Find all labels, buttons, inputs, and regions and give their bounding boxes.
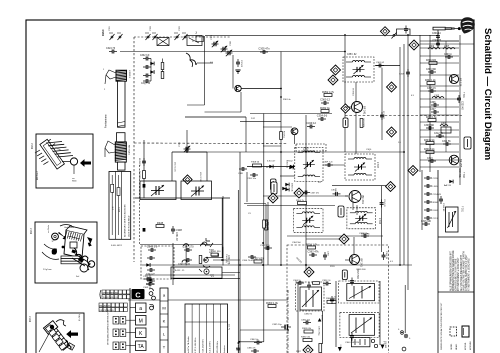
IF transformer Z305 bbox=[293, 208, 323, 232]
coil L307 bbox=[443, 48, 455, 50]
wire hop bbox=[202, 242, 207, 245]
inset B prism body bbox=[64, 226, 87, 258]
node bus f bbox=[305, 264, 307, 266]
band table col2 comp bbox=[117, 188, 120, 196]
output coupling box bbox=[351, 338, 370, 347]
inset B ring 3 bbox=[80, 264, 88, 272]
wire osc vert x207 bbox=[206, 152, 208, 181]
wire x404 vertical bbox=[403, 44, 405, 265]
inset A link wire bbox=[62, 161, 70, 163]
svg-text:e·e: e·e bbox=[211, 276, 215, 278]
wire x408 vertical bbox=[407, 35, 409, 290]
capacitor C347 270 bbox=[182, 244, 194, 252]
wire x240 vertical bbox=[239, 152, 241, 330]
pushbutton small circle b bbox=[152, 296, 156, 300]
gang line mark 1 bbox=[143, 184, 146, 188]
node bus k bbox=[399, 264, 401, 266]
inset B scribble bbox=[74, 248, 90, 270]
svg-text:R310 1.7k: R310 1.7k bbox=[306, 242, 319, 246]
svg-text:C380 10n: C380 10n bbox=[250, 339, 259, 341]
svg-text:R328: R328 bbox=[157, 221, 164, 225]
wire shield dash y143 bbox=[134, 142, 288, 145]
wire x222 vertical bbox=[221, 198, 223, 258]
wire x238b vertical bbox=[237, 190, 239, 353]
svg-text:Z350: Z350 bbox=[303, 149, 309, 151]
wire y244 line bbox=[140, 244, 222, 246]
capacitor C360 470 bbox=[323, 252, 327, 260]
oscillator gang box right bbox=[181, 181, 212, 200]
inset box tuner mechanism bbox=[36, 134, 93, 188]
svg-text:C36P 2.2n: C36P 2.2n bbox=[323, 162, 334, 164]
resistor R307 630 bbox=[252, 256, 264, 263]
capacitor C310 22 bbox=[146, 277, 154, 281]
wire ladder rung y91 bbox=[420, 90, 459, 92]
resistor R307v bbox=[161, 72, 164, 79]
capacitor C305 47n bbox=[258, 46, 270, 54]
pushbutton key K bbox=[136, 328, 147, 338]
svg-text:L305: L305 bbox=[433, 186, 439, 188]
resistor R302 1.2k bbox=[427, 82, 435, 85]
switch contact 4 bbox=[152, 33, 158, 40]
wire rail x336 bbox=[335, 281, 337, 347]
diode D307 bbox=[282, 187, 286, 191]
svg-text:MODULE: MODULE bbox=[470, 340, 472, 350]
Z364 arrow bbox=[351, 318, 372, 334]
svg-text:C345 3.9: C345 3.9 bbox=[147, 244, 158, 248]
resistor on x281 bbox=[280, 132, 283, 140]
ferrite rod body upper bbox=[118, 81, 126, 127]
capacitor C304 top bbox=[404, 26, 408, 34]
wire x382 vertical bbox=[381, 68, 383, 140]
wire y239 line bbox=[306, 238, 342, 240]
svg-text:C364 5k6: C364 5k6 bbox=[292, 242, 301, 244]
capacitor C303 14 bbox=[445, 55, 453, 59]
diode stage T300 bbox=[235, 85, 241, 91]
pushbutton bus bbox=[129, 288, 131, 353]
svg-text:M: M bbox=[162, 306, 165, 311]
svg-text:C322: C322 bbox=[150, 25, 152, 31]
svg-text:C365: C365 bbox=[333, 296, 335, 302]
wire ladder rung y137 bbox=[420, 136, 459, 138]
wire key link a bbox=[130, 307, 136, 309]
svg-text:C302 (H): C302 (H) bbox=[286, 160, 288, 168]
svg-text:C388 98n: C388 98n bbox=[359, 233, 369, 235]
svg-text:TA: TA bbox=[138, 344, 145, 350]
capacitor C312 36 bbox=[436, 134, 444, 138]
capacitor C302 33 bbox=[436, 40, 440, 48]
wire x247 vertical bbox=[246, 172, 248, 202]
capacitor C36 70k bbox=[333, 192, 341, 196]
wire ladder rung y86 bbox=[420, 85, 459, 87]
wire ladder rail x400 bbox=[399, 47, 401, 265]
svg-text:462.2: 462.2 bbox=[32, 143, 34, 149]
test point TP3 bbox=[328, 75, 338, 85]
capacitor C305 15 bbox=[428, 89, 436, 93]
capacitor C357 270 bbox=[264, 246, 272, 250]
svg-text:M 13: M 13 bbox=[119, 207, 121, 212]
svg-text:(CHASSIS) BEI 6,3V BATTERIE: (CHASSIS) BEI 6,3V BATTERIE bbox=[455, 258, 458, 291]
wire T303 base bbox=[345, 106, 351, 108]
wire y275 line bbox=[145, 274, 235, 276]
svg-text:R353 47k: R353 47k bbox=[364, 118, 366, 127]
inset box pointer drive bbox=[36, 313, 84, 353]
band table col2 line bbox=[118, 175, 120, 235]
component ceramic filter block bbox=[464, 137, 471, 149]
svg-text:FM-UKW 87,5: FM-UKW 87,5 bbox=[100, 305, 112, 307]
svg-text:1.9: 1.9 bbox=[398, 142, 402, 144]
svg-text:C302 43: C302 43 bbox=[384, 110, 386, 119]
svg-text:K: K bbox=[163, 319, 166, 324]
wire y127 line bbox=[263, 126, 292, 128]
wire ladder rung y130 bbox=[420, 129, 459, 131]
pushbutton cable hook bbox=[149, 289, 154, 291]
wire x354 t304 bbox=[352, 201, 354, 210]
svg-text:C341 (H): C341 (H) bbox=[225, 254, 227, 263]
svg-text:C314 43: C314 43 bbox=[433, 194, 442, 196]
resistor R308 56 bbox=[253, 164, 262, 167]
svg-text:L303: L303 bbox=[434, 96, 440, 98]
svg-text:R383 63k: R383 63k bbox=[302, 328, 312, 330]
svg-text:X: X bbox=[192, 39, 194, 43]
connector pin 1 ring bbox=[400, 331, 404, 335]
IF transformer Z301 bbox=[343, 57, 374, 82]
test point oscillator bbox=[183, 175, 192, 184]
diode D303 bbox=[290, 165, 294, 169]
svg-text:MODUL: MODUL bbox=[465, 342, 467, 350]
relay box on bus bbox=[397, 29, 411, 35]
resistor R364 bbox=[313, 282, 320, 285]
wire y300 line bbox=[128, 299, 288, 301]
capacitor C330 88 bbox=[142, 158, 146, 166]
svg-text:R304 2.2k: R304 2.2k bbox=[424, 140, 435, 142]
wire caps bus bbox=[150, 59, 152, 82]
wire ladder rung y152 bbox=[420, 151, 459, 153]
capacitor C361 15 bbox=[382, 252, 386, 260]
node bus b bbox=[305, 151, 307, 153]
svg-text:C314 43: C314 43 bbox=[383, 199, 385, 207]
svg-text:C323: C323 bbox=[179, 25, 181, 31]
wire ladder rung y63 bbox=[420, 62, 459, 64]
switch contact 6 bbox=[182, 33, 188, 40]
wire left rail x298 bbox=[297, 282, 299, 353]
test point on bus bbox=[380, 27, 389, 36]
wire x173 vertical bbox=[172, 243, 174, 285]
AF transformer dashed border B bbox=[339, 281, 379, 303]
svg-text:C3Q6: C3Q6 bbox=[366, 149, 372, 151]
svg-text:2W 903: 2W 903 bbox=[386, 340, 388, 348]
inset A pin wires bbox=[46, 142, 73, 158]
wire ladder rung y56 bbox=[420, 55, 459, 57]
capacitor C356 bbox=[248, 255, 256, 259]
wire y152 main bbox=[187, 151, 405, 153]
capacitor C306 bbox=[143, 65, 151, 69]
arrow down b bbox=[381, 345, 385, 349]
svg-text:C3 500: C3 500 bbox=[240, 60, 242, 68]
coil L302 bbox=[428, 48, 440, 50]
svg-text:zur Skala: zur Skala bbox=[47, 224, 50, 233]
switch contact 2 bbox=[117, 33, 123, 40]
svg-text:R3: R3 bbox=[318, 182, 321, 184]
svg-text:L307: L307 bbox=[444, 46, 450, 48]
svg-text:R362 1k: R362 1k bbox=[320, 106, 330, 110]
resistor R362 1k bbox=[320, 106, 330, 113]
svg-text:C305 47n: C305 47n bbox=[258, 46, 270, 50]
pushbutton key a bbox=[136, 303, 147, 313]
svg-text:C305 15: C305 15 bbox=[427, 88, 436, 90]
resistor R328 bbox=[156, 221, 164, 228]
filter Z350 bbox=[296, 144, 326, 151]
svg-text:660 (H): 660 (H) bbox=[295, 257, 302, 264]
wire y51 feed bbox=[266, 51, 345, 53]
band switch table bbox=[109, 172, 131, 240]
switch contact 3 bbox=[145, 33, 151, 40]
wire x233 vertical bbox=[232, 55, 234, 89]
pushbutton key M bbox=[136, 316, 147, 326]
band table col1 line bbox=[111, 175, 113, 235]
inset B hatching bbox=[65, 231, 82, 242]
component Z313 block bbox=[342, 270, 347, 280]
legend solid inner tick bbox=[463, 328, 465, 335]
svg-text:C353 ·62: C353 ·62 bbox=[347, 54, 357, 56]
wire X1 b bbox=[157, 38, 169, 46]
wire y117 line bbox=[185, 116, 246, 118]
svg-text:C367 47n: C367 47n bbox=[311, 193, 320, 195]
oscillator coil box Z361 bbox=[300, 287, 322, 310]
svg-text:462.3: 462.3 bbox=[31, 228, 33, 234]
svg-text:Ferritantenne: Ferritantenne bbox=[105, 114, 108, 128]
svg-text:R305 56k: R305 56k bbox=[458, 168, 460, 179]
svg-text:C303 ¼: C303 ¼ bbox=[444, 53, 452, 56]
wire y236 line bbox=[287, 235, 383, 237]
oscillator gang box left bbox=[140, 181, 176, 200]
svg-text:L3083/1: L3083/1 bbox=[128, 70, 130, 79]
inset B arrow 1 bbox=[58, 232, 66, 240]
wire hop b bbox=[182, 260, 187, 263]
IF transformer Z304 bbox=[347, 208, 376, 229]
svg-text:MIT INSTRUMENT ⌀ 600Ω/VOLT: MIT INSTRUMENT ⌀ 600Ω/VOLT bbox=[457, 257, 460, 291]
filter box X2 bbox=[187, 36, 202, 46]
wire osc vert x172 bbox=[171, 152, 173, 181]
switch contact on bus bbox=[392, 33, 397, 39]
wire x268 vertical bbox=[267, 202, 269, 265]
wire caps join2 bbox=[162, 70, 164, 72]
capacitor C344 27 bbox=[147, 268, 155, 272]
ferrite rod body lower bbox=[117, 133, 126, 142]
wire x281 vertical bbox=[280, 52, 282, 266]
svg-text:3x: 3x bbox=[70, 233, 72, 235]
tape socket contacts bbox=[199, 269, 214, 275]
inset C diagonal bbox=[39, 330, 51, 352]
svg-text:C3Q7 33: C3Q7 33 bbox=[141, 83, 151, 85]
node bus a bbox=[280, 151, 282, 153]
wire tape socket lead bbox=[222, 272, 240, 274]
wire gang link vertical bbox=[133, 37, 135, 262]
svg-text:Welle: Welle bbox=[72, 181, 77, 183]
trimmer C328 bbox=[221, 46, 228, 52]
svg-text:56: 56 bbox=[266, 167, 269, 169]
svg-text:RM 75A/1: RM 75A/1 bbox=[128, 145, 131, 156]
ferrite rod coil main hatched bbox=[115, 142, 127, 162]
wire x430 vertical bbox=[429, 35, 431, 172]
wire ladder rung y48 bbox=[420, 47, 459, 49]
transistor T304 BF241 bbox=[349, 191, 365, 205]
svg-text:AT NOMINAL SUPPLY OF 6,3 VOLT: AT NOMINAL SUPPLY OF 6,3 VOLT bbox=[465, 254, 468, 291]
capacitor C301 4.2 bbox=[376, 64, 384, 68]
capacitor C345 3.9 bbox=[147, 244, 158, 252]
capacitor C318 43 bbox=[439, 196, 443, 204]
svg-text:C313: C313 bbox=[427, 158, 433, 160]
node x238 y343 bbox=[237, 342, 239, 344]
wire gang dash x139 bbox=[139, 165, 141, 245]
variable capacitor osc right bbox=[191, 186, 204, 197]
svg-text:C319: C319 bbox=[399, 74, 405, 76]
svg-text:R385 53k: R385 53k bbox=[301, 337, 311, 339]
svg-text:C330 88: C330 88 bbox=[140, 157, 142, 166]
svg-text:C335: C335 bbox=[179, 141, 181, 147]
connector pin 2 bbox=[405, 335, 407, 337]
svg-text:TELEFONRUF FM: TELEFONRUF FM bbox=[103, 297, 119, 299]
legend solid symbol bbox=[462, 326, 469, 337]
svg-text:R303 1.5k: R303 1.5k bbox=[426, 117, 437, 119]
wire x381 vertical bbox=[381, 186, 383, 252]
wire T304 base bbox=[345, 195, 348, 197]
wire hop a bbox=[184, 244, 189, 247]
svg-text:R300-820: R300-820 bbox=[426, 60, 437, 62]
svg-text:C356 70-60: C356 70-60 bbox=[242, 260, 254, 262]
wire y166 bus bbox=[247, 166, 295, 168]
svg-text:L302: L302 bbox=[429, 46, 435, 48]
resistor R354 7k bbox=[298, 202, 307, 205]
wire ferrite top lead b bbox=[105, 75, 106, 84]
node mid a bbox=[262, 264, 264, 266]
test point TP2 bbox=[331, 65, 341, 75]
wire bus y48 bbox=[430, 40, 459, 42]
wire hop c bbox=[201, 244, 206, 247]
wire y204 link bbox=[244, 203, 266, 205]
svg-text:C328: C328 bbox=[230, 40, 232, 46]
test point TP8 bbox=[268, 193, 278, 203]
node j2 bbox=[221, 259, 223, 261]
wire y88 right bbox=[241, 88, 281, 90]
svg-text:R302 1.2k: R302 1.2k bbox=[425, 80, 436, 82]
resistor R300 820 bbox=[429, 62, 437, 65]
svg-text:LW 150-285 kHz: LW 150-285 kHz bbox=[217, 341, 219, 353]
svg-text:2 Kg 1mm: 2 Kg 1mm bbox=[43, 269, 52, 271]
wire y63 link bbox=[197, 62, 213, 64]
node bus h bbox=[239, 264, 241, 266]
wire x223 vertical b bbox=[222, 247, 224, 266]
capacitor on x238 bbox=[236, 345, 240, 353]
svg-text:BF 241: BF 241 bbox=[360, 259, 364, 268]
svg-text:466/ Feb 1: 466/ Feb 1 bbox=[37, 171, 39, 180]
svg-text:C315: C315 bbox=[433, 178, 439, 180]
wire key link K bbox=[130, 332, 136, 334]
pushbutton pair boxes TA bbox=[113, 342, 119, 350]
transistor T303 BF241 bbox=[352, 102, 367, 115]
band table divider 1 bbox=[114, 172, 116, 240]
test point at T303 base bbox=[341, 104, 350, 113]
wire key link M bbox=[130, 319, 136, 321]
svg-text:L313 C131: L313 C131 bbox=[174, 162, 176, 173]
pushbutton label block 2 bbox=[99, 303, 127, 312]
wire x345 vertical bbox=[344, 35, 346, 152]
test point TP5 bbox=[387, 127, 397, 137]
connector pin 1 bbox=[401, 332, 403, 334]
pushbutton small circle a bbox=[149, 292, 153, 296]
ferrite rod slug hatched bbox=[116, 70, 128, 81]
connector pin 2 ring bbox=[404, 334, 408, 338]
svg-text:C357 270: C357 270 bbox=[260, 245, 270, 247]
capacitor C349 12 bbox=[306, 121, 316, 129]
svg-text:R354 7k: R354 7k bbox=[296, 200, 305, 202]
svg-text:Tel: Tel bbox=[196, 31, 198, 34]
wire ferrite top lead a bbox=[106, 70, 116, 79]
svg-text:C308 390: C308 390 bbox=[424, 125, 435, 127]
coil coupling arc 2 bbox=[190, 60, 193, 67]
capacitor C324 76 bbox=[109, 50, 117, 54]
capacitor C380 10n bbox=[254, 341, 262, 345]
capacitor ladder D302 bbox=[424, 208, 432, 212]
svg-text:1: 1 bbox=[103, 69, 105, 71]
pushbutton pair boxes K bbox=[113, 329, 119, 337]
capacitor C313 bbox=[428, 159, 436, 163]
svg-text:R369 560: R369 560 bbox=[357, 269, 367, 271]
svg-text:R306: R306 bbox=[433, 202, 439, 204]
svg-text:C354 (H): C354 (H) bbox=[317, 113, 328, 117]
inset C bottom bits bbox=[66, 340, 75, 350]
capacitor C365 bbox=[330, 296, 334, 304]
capacitor C316 330 bbox=[422, 222, 430, 226]
svg-text:(Ful Wk): (Ful Wk) bbox=[79, 313, 81, 321]
resistor R386 bbox=[319, 344, 322, 353]
test point TP9 bbox=[294, 188, 304, 198]
transistor T302 BF255 bbox=[449, 155, 463, 168]
svg-text:SPERRKREIS AM: SPERRKREIS AM bbox=[103, 291, 119, 294]
wire T305 collector bbox=[353, 237, 355, 254]
component Z301b block bbox=[271, 179, 277, 190]
capacitor ladder R306 bbox=[424, 200, 432, 204]
node bus l bbox=[287, 329, 289, 331]
trimmer C327 bbox=[212, 41, 219, 47]
test point TP10 bbox=[339, 234, 349, 244]
wire y341 link bbox=[240, 341, 264, 343]
coil L303 bbox=[432, 97, 444, 99]
svg-text:C348 70-60: C348 70-60 bbox=[178, 264, 191, 266]
capacitor C311 56 bbox=[443, 142, 451, 146]
wire y105 link bbox=[187, 104, 205, 106]
svg-text:C341 43: C341 43 bbox=[175, 232, 177, 241]
svg-text:C311 56: C311 56 bbox=[442, 141, 451, 143]
svg-text:C312 36: C312 36 bbox=[434, 133, 443, 135]
svg-text:C381 (H)q: C381 (H)q bbox=[318, 326, 320, 335]
capacitor C360 12 bbox=[320, 97, 330, 105]
inset C squiggle bbox=[56, 320, 66, 326]
node padder b bbox=[222, 259, 224, 261]
wire X2 a bbox=[189, 38, 199, 43]
function key column bbox=[160, 288, 168, 353]
svg-text:C360 10n: C360 10n bbox=[267, 218, 269, 228]
node j1 bbox=[206, 257, 208, 259]
wire x246 vertical bbox=[245, 117, 247, 152]
svg-text:C3: C3 bbox=[248, 213, 251, 215]
svg-text:C317: C317 bbox=[433, 218, 439, 220]
svg-text:RÖHRENVOLTMETER GEGEN MASSE: RÖHRENVOLTMETER GEGEN MASSE bbox=[452, 250, 455, 291]
wire y176 IF bbox=[280, 175, 295, 177]
svg-text:F 301: F 301 bbox=[461, 206, 463, 213]
svg-text:R3 (H)x: R3 (H)x bbox=[283, 131, 285, 138]
wire y258 line bbox=[207, 257, 223, 259]
svg-text:R301 3.2k: R301 3.2k bbox=[424, 149, 435, 151]
